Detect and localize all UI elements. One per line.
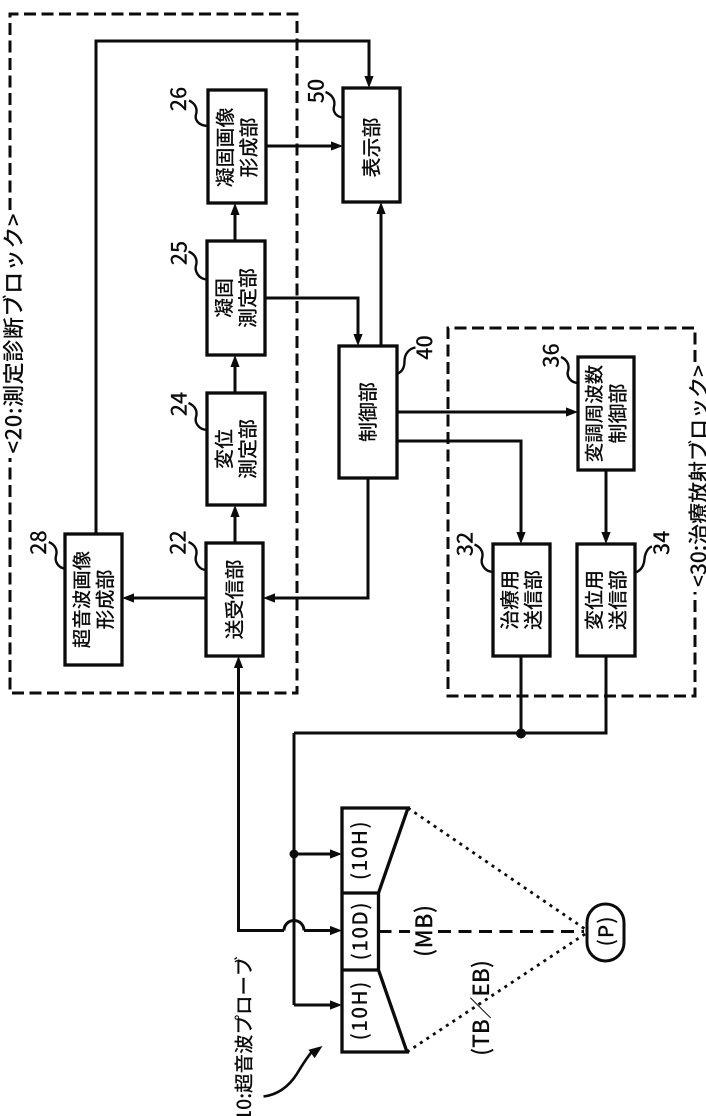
wire control 40 to display 50 [380,207,383,346]
arrowhead into 22 bottom [234,656,243,668]
ref numeral 22 [170,531,186,554]
dashed beam line (MB) right segment [438,930,584,933]
text block 50 [362,118,381,177]
block 28 ultrasound-image forming unit [65,534,122,665]
leader squiggle 36 [561,357,578,383]
leader squiggle 24 [189,403,208,430]
arrowhead into 26 bottom [230,203,239,215]
text block 34 col2 [608,571,627,630]
focus point capsule (P) [587,904,624,961]
leader squiggle 22 [189,542,207,570]
text (10D) middle element [351,904,372,958]
label <20: measurement-diagnosis block> on left edge [2,214,23,452]
arrowhead into 50 top [364,76,373,88]
text (10H) top element [350,823,371,878]
ultrasound probe 10 outline [342,808,408,1052]
block 50 display unit [343,88,400,202]
text block 28 col2 [96,570,115,629]
ref numeral 40 [416,336,432,359]
text block 25 col2 [238,269,257,328]
dotted beam upper [408,808,585,929]
leader squiggle 50 [326,92,344,118]
arrowhead into 28 right [122,593,134,602]
leader squiggle 32 [475,545,494,573]
wire block22 to block24 [234,510,237,543]
wire block25 to control 40 [265,298,358,341]
arrowhead into 50 bottom [376,202,385,214]
arrowhead into 24 bottom [230,505,239,517]
ref numeral 25 [171,242,187,265]
arrowhead into 25 bottom [230,355,239,367]
block 26 coagulation-image forming unit [208,90,266,203]
wire control 40 bottom to block 22 [268,478,368,598]
text block 28 col1 [72,551,90,648]
text block 24 col1 [215,430,234,469]
arrowhead into top 10H [330,849,342,858]
text block 32 col2 [524,571,543,630]
arrowhead into 34 top [601,532,610,544]
wire block26 to block50 [266,145,338,148]
wire riser to probe element 10H top [294,853,336,856]
label <30: therapy-radiation block> on right edge [688,366,706,587]
text block 40 [358,383,377,442]
text block 22 [225,560,244,639]
text block 36 col1 [585,365,603,461]
wire block24 to block25 [234,360,237,393]
arrowhead into 22 right [263,593,275,602]
ref numeral 24 [171,392,187,415]
arrowhead into 32 top [516,532,525,544]
probe divider top [342,891,379,894]
ref numeral 36 [543,344,559,367]
block 25 coagulation measuring unit [207,241,265,355]
text block 25 col1 [215,280,234,318]
wire block 36 to block 34 [605,470,608,539]
leader squiggle 28 [49,542,65,569]
text (P) [597,918,618,944]
leader squiggle 26 [189,101,208,127]
leader squiggle 25 [189,252,208,280]
bidirectional wire block22 to probe 10D with hop [239,660,285,931]
arrowhead into 36 left [566,407,578,416]
block 22 transmit/receive unit [206,543,263,656]
text block 24 col2 [238,420,257,479]
block 24 displacement measuring unit [207,393,265,505]
ref label 10: ultrasound probe [234,957,253,1116]
dashed beam line (MB) left segment [379,930,411,933]
wire block25 to block26 [234,208,237,241]
block 36 modulation frequency control unit [578,357,634,470]
ref numeral 50 [308,80,324,103]
leader squiggle 34 [635,547,652,573]
arrowhead into 50 left [331,141,343,150]
text block 36 col2 [608,384,627,443]
text block 26 col2 [239,118,258,177]
dashed boundary of block 20 (measurement/diagnosis block) [10,14,297,693]
label (MB) [413,907,437,955]
text block 34 col1 [585,572,604,629]
curved leader arrow to probe [264,1051,314,1097]
text (10H) bottom element [350,984,371,1039]
arrowhead into 40 top [353,334,362,346]
block 40 control unit [339,346,397,478]
dashed boundary of block 30 (therapy radiation block) [448,328,695,696]
wire control 40 to block 36 [397,411,573,414]
label (TB/EB) [470,962,494,1054]
ref numeral 28 [30,531,46,554]
wire riser to probe element 10H bottom [294,1004,336,1007]
probe divider bottom [342,968,379,971]
wire block 32 down to bus [520,656,523,733]
arrowhead into bottom 10H [330,1000,342,1009]
wire block28 top to display 50 top [96,41,369,534]
arrowhead into 10D [330,926,342,935]
leader squiggle 40 [397,348,416,375]
wire control 40 to block 32 [397,441,521,539]
ref numeral 26 [170,88,186,111]
wire block 34 down and bus to probe riser [294,656,606,733]
ref numeral 32 [457,533,473,556]
ref numeral 34 [653,531,669,554]
wire block22 to block28 [127,597,206,600]
text block 32 col1 [500,572,519,629]
block 34 displacement transmission unit [577,544,635,656]
junction dot at 32 output on bus [516,729,526,739]
block 32 therapy transmission unit [493,544,550,656]
text block 26 col1 [216,108,235,187]
junction dot on riser [290,850,299,859]
probe riser vertical wire [293,733,296,1005]
dotted beam lower [407,934,585,1052]
